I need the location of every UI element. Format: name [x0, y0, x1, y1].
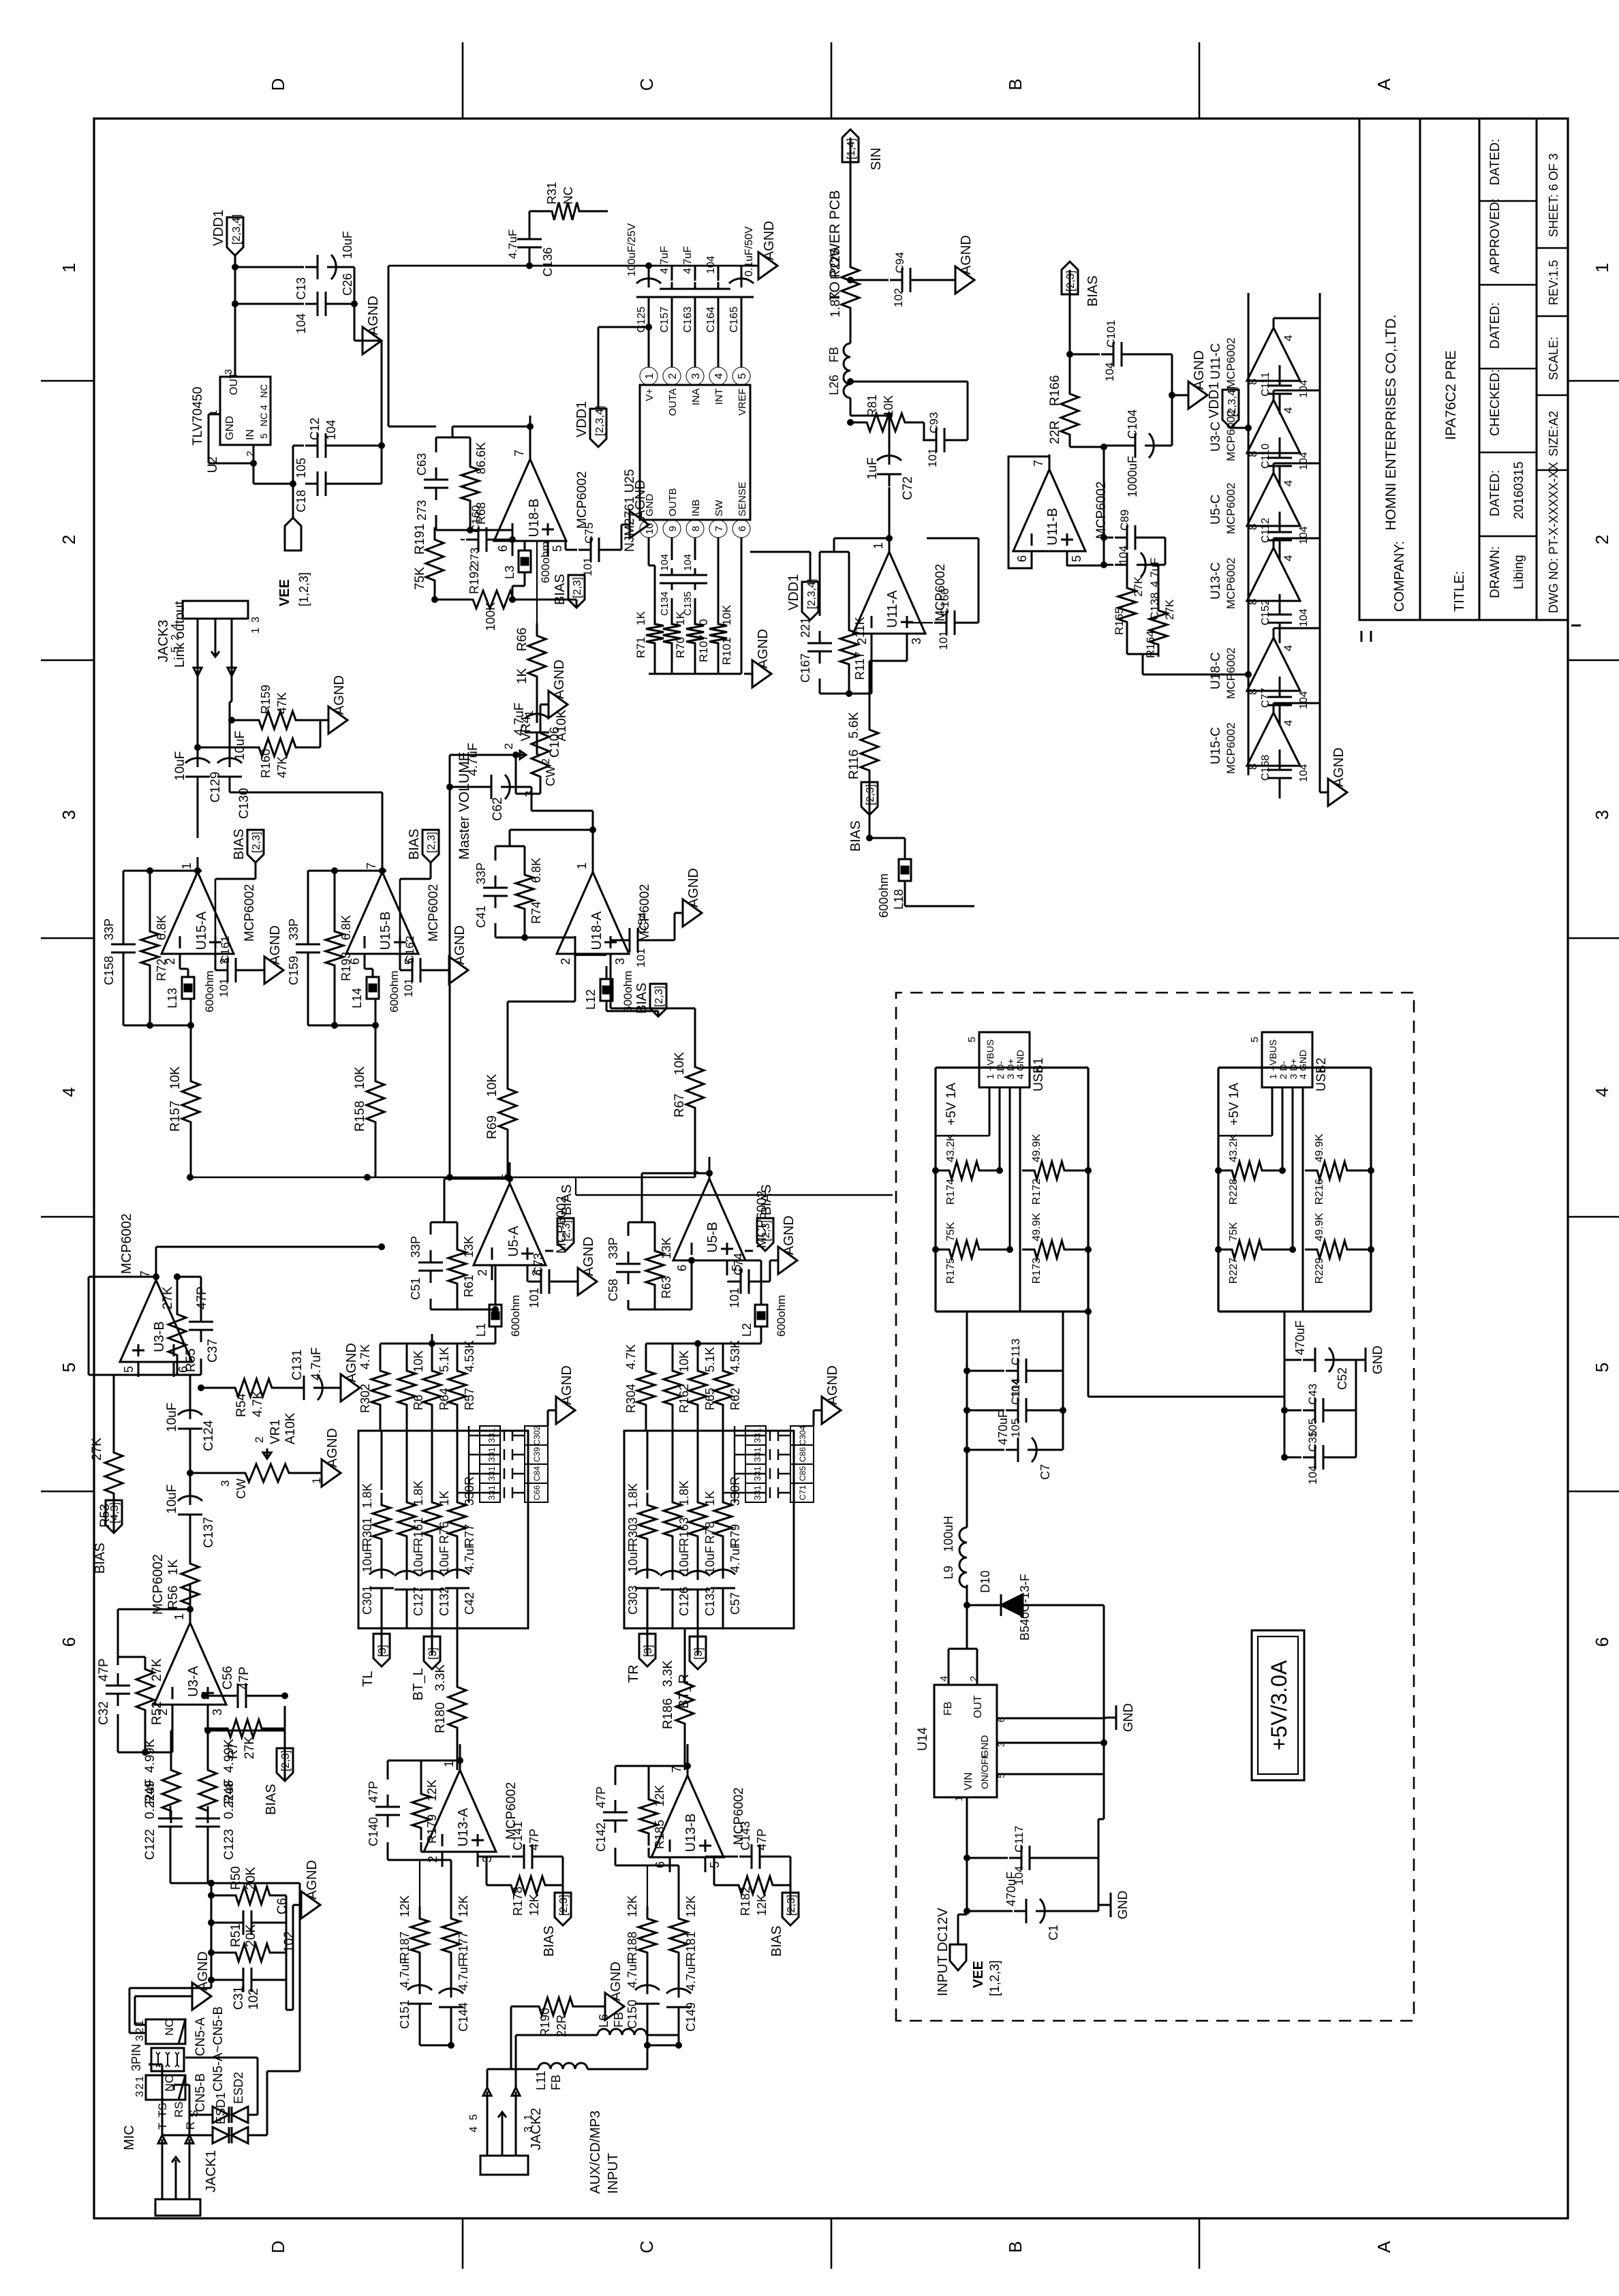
svg-text:10K: 10K	[353, 1066, 367, 1089]
svg-text:1: 1	[985, 1074, 996, 1079]
svg-text:5.1K: 5.1K	[437, 1347, 451, 1372]
svg-text:2: 2	[667, 373, 679, 379]
resistor R69 10K	[499, 1076, 516, 1142]
svg-text:3.3K: 3.3K	[433, 1664, 448, 1691]
svg-text:JACK1: JACK1	[204, 2150, 219, 2192]
capacitor C131 4.7uF	[292, 1387, 304, 1389]
svg-text:1K: 1K	[634, 611, 647, 625]
svg-text:10uF: 10uF	[626, 1545, 640, 1572]
svg-text:C86: C86	[798, 1447, 807, 1462]
capacitor C133 10uF	[697, 1589, 699, 1602]
svg-text:U15-B: U15-B	[378, 912, 393, 950]
resistor R61 13K	[448, 1237, 466, 1296]
svg-text:100K: 100K	[484, 602, 497, 631]
svg-text:600ohm: 600ohm	[621, 971, 634, 1012]
svg-text:2: 2	[134, 2083, 146, 2090]
ferrite bead L14 600ohm	[367, 977, 379, 999]
svg-text:C: C	[636, 2241, 657, 2254]
wire to U3-B plus input	[173, 1362, 175, 1375]
bias flag U13-A	[562, 1885, 564, 1914]
svg-text:C51: C51	[409, 1277, 422, 1300]
capacitor C143 47P	[739, 1856, 752, 1858]
svg-text:C125: C125	[636, 307, 647, 332]
resistor R74 6.8K	[516, 863, 534, 921]
svg-text:75K: 75K	[945, 1222, 957, 1241]
resistor R164 27K	[1150, 598, 1167, 657]
svg-text:[2,3]: [2,3]	[1065, 270, 1077, 292]
svg-text:U5-B: U5-B	[705, 1222, 720, 1253]
svg-text:5: 5	[1249, 1037, 1261, 1042]
svg-text:C112: C112	[1260, 518, 1271, 543]
wire VR4 wiper to bus	[450, 754, 516, 756]
svg-text:104: 104	[1298, 608, 1310, 627]
svg-text:R117: R117	[853, 651, 867, 680]
svg-text:MCP6002: MCP6002	[1224, 337, 1237, 389]
svg-text:101: 101	[937, 631, 950, 650]
op-amp buffer U13-C	[1247, 548, 1300, 601]
wire R81/C93 to out node	[889, 381, 968, 383]
ground AGND C131	[326, 1387, 333, 1389]
svg-text:+5V/3.0A: +5V/3.0A	[1267, 1660, 1291, 1750]
connector JACK2	[480, 2156, 528, 2175]
svg-text:R187: R187	[398, 1932, 412, 1961]
svg-text:A: A	[1374, 2241, 1394, 2253]
svg-text:C94: C94	[893, 252, 906, 273]
svg-text:27K: 27K	[243, 1736, 257, 1759]
resistor R78 1K	[689, 1490, 707, 1549]
ground GND C52	[1356, 1359, 1366, 1361]
resistor R54 4.7K	[223, 1379, 284, 1397]
resistor R192 100K	[461, 591, 526, 608]
net flag TR	[647, 1628, 649, 1656]
capacitor C117 104	[1009, 1857, 1021, 1859]
svg-text:[1,4]: [1,4]	[846, 138, 857, 159]
svg-text:R51: R51	[229, 1923, 243, 1947]
svg-text:104: 104	[1298, 526, 1310, 544]
resistor R180 3.3K	[448, 1675, 466, 1740]
svg-text:R69: R69	[485, 1115, 499, 1139]
svg-text:[2,3]: [2,3]	[426, 832, 437, 853]
resistor R188 12K	[638, 1906, 656, 1965]
svg-text:C13: C13	[294, 277, 308, 300]
svg-text:OUT: OUT	[972, 1695, 984, 1718]
svg-text:MCP6002: MCP6002	[427, 884, 441, 942]
bias flag U13-B	[790, 1885, 792, 1914]
svg-text:IN: IN	[245, 429, 256, 440]
svg-text:[2,3]: [2,3]	[653, 986, 665, 1007]
resistor R53 27K	[105, 1440, 123, 1506]
resistor R52 27K	[136, 1657, 154, 1722]
svg-text:C304: C304	[798, 1425, 807, 1445]
resistor R49 4.99K	[162, 1758, 180, 1823]
svg-text:C124: C124	[202, 1420, 216, 1451]
svg-text:3: 3	[910, 638, 923, 645]
svg-text:1.8K: 1.8K	[412, 1480, 425, 1506]
svg-text:R302: R302	[358, 1384, 372, 1413]
wire to rc filter rail	[129, 1987, 211, 1989]
svg-text:3: 3	[1592, 810, 1612, 820]
svg-text:C110: C110	[1260, 444, 1271, 469]
resistor R175 75K	[937, 1241, 991, 1258]
svg-text:SENSE: SENSE	[737, 482, 748, 516]
svg-text:AGND: AGND	[1192, 350, 1207, 390]
feedback wires U18-B	[435, 515, 437, 530]
svg-text:600ohm: 600ohm	[539, 542, 552, 583]
svg-text:10uF: 10uF	[173, 751, 187, 781]
svg-text:C137: C137	[202, 1517, 216, 1548]
svg-text:1: 1	[180, 863, 194, 869]
svg-text:U18-C: U18-C	[1209, 652, 1223, 689]
svg-text:C135: C135	[682, 591, 694, 616]
zone tick marks	[41, 1491, 94, 1493]
svg-text:Link output: Link output	[172, 601, 187, 668]
svg-text:JACK3: JACK3	[156, 620, 171, 662]
svg-text:D10: D10	[978, 1570, 992, 1593]
svg-text:MCP6002: MCP6002	[1224, 722, 1237, 774]
svg-text:7: 7	[713, 526, 725, 531]
svg-text:47P: 47P	[237, 1666, 251, 1690]
svg-text:U11-A: U11-A	[885, 590, 900, 628]
ground AGND R bank	[744, 673, 752, 675]
op-amp buffer U5-C	[1247, 473, 1300, 526]
svg-text:B540C-13-F: B540C-13-F	[1018, 1574, 1032, 1641]
svg-text:BIAS: BIAS	[769, 1925, 784, 1957]
svg-text:GND: GND	[1297, 1050, 1308, 1071]
wire U15-B output	[382, 838, 384, 872]
svg-text:[2,3,4]: [2,3,4]	[594, 406, 606, 436]
svg-text:104: 104	[1298, 379, 1310, 398]
svg-text:6: 6	[59, 1637, 79, 1647]
op-amp U11-A	[853, 552, 925, 634]
ground GND U14	[1107, 1717, 1116, 1719]
potentiometer VR4 A10K	[531, 721, 549, 789]
svg-text:104: 104	[294, 313, 308, 334]
svg-text:12K: 12K	[457, 1895, 470, 1917]
op-amp U18-B	[494, 459, 566, 541]
capacitor C72 1uF	[889, 474, 891, 486]
capacitor bank C157 4.7uF	[671, 297, 673, 304]
resistor R62 4.53K	[714, 1359, 732, 1417]
svg-text:102: 102	[247, 1988, 261, 2010]
resistor R187 12K	[411, 1906, 429, 1965]
svg-text:1.8K: 1.8K	[677, 1480, 691, 1506]
capacitor C142 47P	[615, 1820, 617, 1833]
bias flag R116	[861, 782, 878, 815]
resistor R177 12K	[442, 1906, 460, 1965]
wires U14 gnd pins	[997, 1773, 1104, 1775]
svg-text:R66: R66	[515, 627, 529, 651]
svg-text:C163: C163	[682, 307, 694, 332]
svg-text:R67: R67	[673, 1093, 687, 1117]
svg-text:C101: C101	[1105, 320, 1117, 347]
svg-text:6: 6	[1592, 1637, 1612, 1647]
svg-text:0.1uF/50V: 0.1uF/50V	[743, 226, 755, 277]
svg-text:GND: GND	[1371, 1346, 1385, 1374]
svg-text:B: B	[1005, 78, 1026, 90]
op-amp buffer U15-C	[1247, 713, 1300, 766]
svg-text:SHEET: 6 OF 3: SHEET: 6 OF 3	[1547, 153, 1560, 237]
svg-text:C42: C42	[463, 1592, 476, 1615]
feedback wires U13-A	[387, 1842, 389, 1860]
svg-text:27K: 27K	[150, 1658, 164, 1681]
svg-text:C7: C7	[1038, 1464, 1052, 1480]
svg-text:4: 4	[1282, 407, 1295, 414]
svg-text:BT_L: BT_L	[411, 1668, 426, 1701]
svg-text:3: 3	[250, 617, 262, 623]
capacitor C62 4.7uF	[479, 786, 491, 788]
svg-text:VREF: VREF	[737, 388, 748, 416]
svg-text:[3]: [3]	[427, 1647, 439, 1660]
ground AGND VR1	[301, 1472, 313, 1474]
svg-text:+5V 1A: +5V 1A	[1227, 1083, 1242, 1126]
resistor R157 10K	[182, 1069, 200, 1134]
svg-text:101: 101	[634, 948, 647, 967]
capacitor C127 10uF	[406, 1589, 408, 1602]
svg-text:470uF: 470uF	[996, 1410, 1010, 1445]
svg-text:C302: C302	[532, 1425, 542, 1445]
svg-text:U3-A: U3-A	[186, 1666, 201, 1697]
svg-text:INA: INA	[690, 388, 702, 405]
svg-text:RS: RS	[172, 2101, 185, 2117]
svg-text:C43: C43	[1306, 1384, 1319, 1405]
svg-text:10uF: 10uF	[360, 1545, 374, 1572]
op-amp buffer U3-C	[1247, 400, 1300, 453]
IC U25 NJM2761 box	[640, 385, 750, 520]
svg-text:1: 1	[644, 373, 656, 379]
svg-text:AGND: AGND	[325, 1428, 340, 1468]
wire tone to volume bus	[381, 1246, 383, 1248]
svg-text:CW: CW	[544, 766, 557, 786]
svg-text:R229: R229	[1314, 1258, 1325, 1284]
wire U2 in	[253, 445, 255, 484]
svg-text:C131: C131	[290, 1350, 305, 1380]
svg-text:27K: 27K	[1163, 599, 1176, 620]
svg-text:4.7K: 4.7K	[624, 1344, 638, 1369]
title block row4 dividers	[1537, 469, 1568, 471]
capacitor bank C125 100uF/25V	[648, 297, 650, 304]
svg-text:R101: R101	[720, 637, 733, 665]
tone network frame right	[624, 1431, 794, 1628]
svg-text:NC: NC	[163, 2019, 176, 2036]
svg-text:R107: R107	[697, 634, 710, 662]
ground AGND U2	[354, 340, 363, 342]
svg-text:U3-C: U3-C	[1209, 422, 1223, 452]
svg-text:L26: L26	[827, 375, 841, 395]
ground AGND C94	[947, 279, 955, 281]
svg-text:3: 3	[134, 2091, 146, 2097]
svg-text:20K: 20K	[244, 1867, 258, 1890]
svg-text:3: 3	[613, 958, 627, 965]
svg-text:4.7uF: 4.7uF	[659, 246, 670, 274]
svg-text:C: C	[636, 78, 657, 91]
svg-text:C54: C54	[636, 912, 649, 933]
ground AGND 331 left	[547, 1410, 549, 1426]
svg-text:86.6K: 86.6K	[474, 442, 488, 474]
wire jack2 rails	[420, 2045, 451, 2047]
svg-text:4: 4	[59, 1087, 79, 1097]
svg-text:C85: C85	[798, 1466, 807, 1481]
capacitor C77 104	[1279, 705, 1281, 717]
op-amp U5-A	[474, 1183, 546, 1265]
capacitor C162 101	[400, 969, 412, 972]
svg-text:2: 2	[995, 1074, 1006, 1079]
svg-text:3: 3	[219, 1480, 232, 1487]
svg-text:49.9K: 49.9K	[1031, 1213, 1043, 1241]
wire U2 gnd pin	[209, 414, 220, 416]
output rail bottom buffers	[1319, 293, 1321, 792]
svg-text:104: 104	[1298, 452, 1310, 470]
IC U2 TLV70450	[220, 377, 271, 445]
svg-text:4: 4	[258, 405, 269, 410]
resistor R64 5.1K	[423, 1359, 441, 1417]
svg-text:C134: C134	[659, 591, 670, 616]
svg-text:AGND: AGND	[581, 1237, 596, 1276]
svg-text:49.9K: 49.9K	[1314, 1134, 1325, 1162]
svg-text:C63: C63	[415, 453, 429, 476]
resistor R70 1K	[663, 612, 681, 655]
svg-text:C1: C1	[1047, 1925, 1060, 1940]
svg-text:6: 6	[675, 1265, 689, 1271]
svg-text:DATED:: DATED:	[1488, 470, 1502, 516]
svg-text:75K: 75K	[1228, 1222, 1239, 1241]
svg-text:104: 104	[324, 420, 338, 440]
svg-text:SIZE:A2: SIZE:A2	[1547, 411, 1560, 456]
svg-text:[2,3]: [2,3]	[280, 1750, 292, 1771]
svg-text:TLV70450: TLV70450	[191, 387, 205, 446]
svg-text:C160: C160	[469, 505, 482, 533]
wire R191 left	[434, 593, 436, 600]
wires R bank right to node	[645, 1417, 647, 1431]
svg-text:AGND: AGND	[452, 925, 467, 965]
svg-text:2: 2	[502, 743, 515, 749]
svg-text:DWG NO: PT-X-XXXXX-XX: DWG NO: PT-X-XXXXX-XX	[1547, 462, 1560, 613]
capacitor C122 0.22uF	[170, 1827, 172, 1839]
svg-text:R181: R181	[684, 1932, 698, 1961]
svg-text:1: 1	[575, 863, 589, 869]
svg-text:10K: 10K	[412, 1350, 425, 1372]
svg-text:AGND: AGND	[608, 1961, 623, 2001]
feedback wires U15-A	[123, 965, 125, 1025]
resistor R173 49.9K	[1022, 1241, 1077, 1258]
svg-text:4: 4	[468, 2126, 480, 2132]
op-amp U3-A	[154, 1623, 226, 1705]
resistor R57 4.53K	[448, 1359, 466, 1417]
net flag SIN to power pcb	[850, 138, 852, 255]
capacitor C124 10uF	[189, 1429, 191, 1441]
svg-text:R70: R70	[674, 637, 687, 658]
feedback wires U18-A	[495, 923, 497, 937]
svg-text:D: D	[268, 2241, 288, 2254]
svg-text:R159: R159	[259, 685, 273, 714]
power flag VDD1 buffers	[1222, 390, 1239, 428]
capacitor C56 47P	[226, 1695, 238, 1697]
svg-text:TR: TR	[626, 1664, 641, 1683]
connector JACK3	[183, 601, 248, 619]
svg-text:C165: C165	[728, 307, 740, 332]
svg-text:102: 102	[282, 1931, 296, 1953]
resistor R229 49.9K	[1305, 1241, 1359, 1258]
svg-text:DATED:: DATED:	[1488, 139, 1502, 185]
svg-text:105: 105	[294, 458, 308, 478]
capacitor C138 4.7uF	[1115, 564, 1127, 566]
svg-text:INPUT: INPUT	[606, 2153, 621, 2194]
svg-text:13K: 13K	[660, 1237, 673, 1259]
svg-text:33P: 33P	[474, 863, 488, 884]
svg-text:101: 101	[527, 1288, 541, 1308]
svg-text:L13: L13	[166, 988, 179, 1008]
svg-text:47P: 47P	[367, 1781, 380, 1803]
svg-text:BIAS: BIAS	[1085, 275, 1100, 307]
svg-text:VDD1: VDD1	[786, 574, 801, 610]
svg-text:1000uF: 1000uF	[1126, 456, 1139, 497]
capacitor C94 102	[890, 279, 902, 281]
connector CN5-A	[146, 2019, 185, 2044]
svg-text:[2,3]: [2,3]	[865, 784, 876, 805]
svg-text:FB: FB	[549, 2075, 563, 2090]
op-amp U15-A	[161, 872, 234, 954]
svg-text:600ohm: 600ohm	[509, 1295, 522, 1337]
svg-text:R191: R191	[413, 524, 427, 555]
svg-text:C26: C26	[341, 273, 354, 296]
connector USB1	[979, 1032, 1030, 1087]
svg-text:C35: C35	[1306, 1431, 1319, 1452]
svg-text:R166: R166	[1048, 375, 1062, 406]
capacitor C1 470uF	[1014, 1910, 1026, 1912]
svg-text:C93: C93	[927, 412, 940, 433]
svg-text:USB2: USB2	[1314, 1057, 1329, 1091]
usb2 pin wires	[1271, 1087, 1274, 1136]
ferrite bead L1 600ohm	[489, 1305, 502, 1327]
capacitor C42 4.7uF	[457, 1588, 459, 1600]
svg-text:27K: 27K	[1132, 576, 1145, 597]
capacitor C74 101	[728, 1281, 741, 1283]
svg-text:AGND: AGND	[332, 675, 347, 715]
svg-text:U5-C: U5-C	[1209, 495, 1223, 525]
svg-text:4.7uF: 4.7uF	[512, 702, 527, 736]
net flag TL	[381, 1600, 383, 1628]
inductor L6 FB	[598, 2029, 647, 2035]
svg-text:AGND: AGND	[782, 1215, 797, 1255]
wire usb frames link	[1088, 1396, 1284, 1398]
ground bus power section	[1098, 1819, 1100, 1858]
wire caps to agnd rail	[354, 267, 356, 341]
svg-text:C167: C167	[799, 653, 812, 683]
resistor R81 10K	[854, 414, 917, 431]
svg-text:12K: 12K	[626, 1895, 639, 1917]
capacitor C160 273	[466, 539, 478, 541]
svg-text:R157: R157	[168, 1101, 183, 1132]
svg-text:[2,3]: [2,3]	[251, 832, 262, 853]
capacitor C93 101	[924, 439, 936, 441]
svg-text:L11: L11	[534, 2070, 548, 2090]
svg-text:HOMNI ENTERPRISES CO,.LTD.: HOMNI ENTERPRISES CO,.LTD.	[1383, 315, 1399, 531]
svg-text:AGND: AGND	[552, 660, 567, 699]
svg-text:R174: R174	[945, 1179, 957, 1205]
svg-text:2: 2	[540, 758, 552, 764]
svg-text:10uF: 10uF	[703, 1546, 717, 1574]
svg-text:AGND: AGND	[686, 868, 701, 907]
inductor L26 FB	[844, 343, 850, 398]
svg-text:MCP6002: MCP6002	[1224, 647, 1237, 699]
svg-text:5.1K: 5.1K	[703, 1347, 717, 1372]
wires tone right banks	[647, 1549, 649, 1568]
capacitor C75 101	[579, 549, 591, 551]
wire jack1 tip to esd node	[161, 2064, 164, 2135]
op-amp U13-A	[424, 1770, 496, 1852]
svg-text:4: 4	[1297, 1074, 1308, 1079]
svg-text:CW: CW	[234, 1478, 248, 1499]
svg-text:3: 3	[690, 373, 702, 379]
